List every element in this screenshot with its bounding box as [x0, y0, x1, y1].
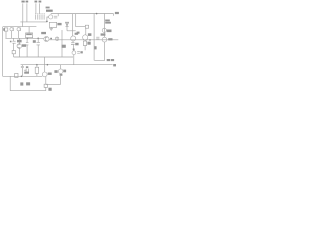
- transistor Q5: [83, 35, 88, 40]
- wire vert x93.8: [93, 14, 95, 61]
- node junction blob: [46, 21, 48, 23]
- transistor Q7: [42, 72, 47, 77]
- label near D1: [77, 32, 80, 34]
- node dot F1: [36, 64, 38, 66]
- electrolytic C10: [102, 28, 106, 32]
- label above RV1: [46, 7, 50, 9]
- inductor L1: [4, 28, 8, 31]
- node dot top rail: [96, 13, 98, 15]
- wire C4 chain: [26, 38, 28, 57]
- wire C5 chain: [37, 38, 39, 57]
- label R10b: [105, 22, 111, 24]
- battery B1: [12, 51, 15, 54]
- wire R14 bottom: [45, 87, 47, 90]
- input label 1: [22, 1, 25, 3]
- label Q1: [41, 32, 46, 34]
- wire input4: [39, 3, 41, 14]
- node dot G1: [21, 76, 23, 78]
- input label 4: [39, 1, 42, 3]
- wire vert x104: [103, 14, 105, 38]
- node rail G: [3, 75, 43, 77]
- label top right: [115, 12, 119, 14]
- capacitor C5: [37, 42, 40, 45]
- node rail H: [10, 90, 46, 92]
- node dot C1: [27, 38, 29, 40]
- node rail B: [3, 26, 36, 28]
- label C3: [17, 40, 22, 43]
- wire Q4 chain down: [72, 41, 75, 65]
- resistor R14: [44, 84, 47, 87]
- electrolytic C8: [72, 51, 76, 55]
- wire G-H link: [9, 76, 11, 90]
- node dot C2: [37, 38, 39, 40]
- diode D1: [65, 22, 68, 26]
- wire box to Q5: [85, 28, 87, 35]
- label U2 right: [57, 23, 61, 25]
- node dot F2: [47, 64, 49, 66]
- wire vert x62: [61, 30, 63, 57]
- wire Q5 top chain: [76, 14, 86, 27]
- wire C1 leads: [11, 31, 13, 39]
- wire L1 bottom: [5, 31, 7, 38]
- label Q8 below: [60, 74, 63, 76]
- label near H1: [20, 82, 23, 85]
- label C7: [75, 43, 78, 46]
- pot VR1: [15, 73, 18, 77]
- label mid right: [94, 46, 96, 49]
- label rail F end: [113, 64, 116, 66]
- node rail C: [5, 37, 43, 39]
- label U1: [26, 34, 32, 36]
- input label 3: [35, 1, 38, 3]
- transistor Q6: [102, 37, 107, 42]
- node rail A: [20, 21, 46, 23]
- wire D1 bottom: [67, 27, 76, 31]
- transistor Q1: [44, 36, 49, 41]
- label under x62: [62, 45, 66, 48]
- wire input3: [35, 3, 37, 14]
- label Q6: [101, 33, 106, 35]
- capacitor marks left of Q6: [96, 37, 99, 39]
- label under U1: [33, 40, 36, 43]
- wire D-F link: [44, 57, 46, 65]
- node out rail: [94, 59, 105, 61]
- label near H3: [48, 88, 51, 91]
- crystal marks: [54, 16, 58, 18]
- wire C3 chain: [13, 38, 15, 57]
- wire Q2 top: [18, 38, 20, 43]
- wire Q6 down: [104, 42, 106, 60]
- capacitor C12: [26, 69, 28, 72]
- connector J1 pin dots: [35, 12, 44, 15]
- wire left border: [2, 27, 4, 77]
- label L1: [3, 28, 5, 31]
- capacitor C4: [26, 42, 29, 45]
- stub x58: [57, 14, 59, 17]
- capacitor C2: [17, 28, 20, 31]
- node dot line: [89, 39, 91, 41]
- label above G: [24, 72, 29, 74]
- wire C2 leads: [18, 31, 20, 39]
- box over Q5: [85, 25, 88, 28]
- transistor C buffer circle: [49, 15, 53, 19]
- wire A-B link: [22, 22, 24, 27]
- label Q4: [75, 33, 79, 35]
- plus mark: [73, 49, 75, 51]
- label out a: [107, 59, 110, 61]
- transistor Q4: [71, 36, 76, 41]
- node rail F: [21, 64, 113, 66]
- capacitor C3: [12, 41, 15, 43]
- label R8: [87, 42, 90, 45]
- connector J1 pins: [36, 15, 44, 20]
- ground under U2: [49, 29, 53, 31]
- wire Q5 to R8: [84, 40, 86, 41]
- transistor Q2: [17, 44, 22, 49]
- label R10a: [105, 20, 110, 22]
- wire rail end hook: [112, 14, 114, 16]
- label C9: [80, 51, 82, 53]
- node dot A: [50, 38, 52, 40]
- resistor R13: [35, 67, 39, 73]
- resistor R8 under Q5: [83, 41, 86, 46]
- IC box U1: [26, 33, 33, 38]
- capacitor C6: [55, 37, 58, 40]
- wire R13 leads: [36, 65, 38, 77]
- label right of Q6: [108, 38, 112, 40]
- IC box U2: [49, 22, 56, 27]
- capacitor C1: [10, 28, 13, 31]
- node rail top: [51, 13, 114, 15]
- transistor Q8: [58, 69, 63, 74]
- label C12: [26, 66, 28, 68]
- capacitor C9 marks: [77, 51, 80, 53]
- label Q8 right: [63, 70, 66, 73]
- wire input2: [26, 3, 28, 22]
- wire Q7 bottom: [45, 77, 47, 85]
- label Q8 left: [54, 70, 57, 73]
- input label 2: [26, 1, 29, 3]
- label near H2: [26, 82, 30, 85]
- label Q7: [48, 73, 52, 75]
- wire bottom mid chain: [60, 65, 62, 85]
- wire signal line: [49, 39, 118, 41]
- wire U1 top: [28, 27, 30, 33]
- wire Q2 bottom: [18, 48, 20, 57]
- capacitor C3 plus: [10, 41, 12, 43]
- label Q5: [88, 33, 92, 36]
- label R12: [88, 43, 90, 45]
- capacitor C7 under Q4: [71, 43, 75, 45]
- wire x22.4 drop: [21, 65, 23, 77]
- wire R8 bottom lead: [84, 46, 86, 51]
- wire Q4 collector from top: [72, 14, 74, 36]
- label out b: [111, 59, 114, 61]
- node rail D: [14, 56, 73, 58]
- label Q2: [22, 44, 26, 47]
- label C10: [107, 30, 112, 33]
- wire Q7 top: [44, 65, 46, 72]
- capacitor C11 on x22.4: [21, 66, 24, 67]
- wire junction to circle: [47, 17, 49, 21]
- wire U2 down: [50, 27, 52, 28]
- label RV1: [46, 10, 53, 12]
- wire bottom mid horizontal: [46, 84, 61, 86]
- wire input1: [22, 3, 24, 22]
